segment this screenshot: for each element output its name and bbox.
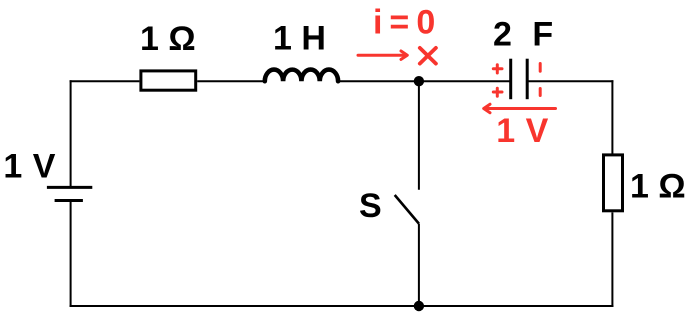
node junction top — [414, 76, 424, 86]
arrow capacitor voltage (red, leftward) — [484, 104, 556, 113]
svg-text:2 F: 2 F — [493, 16, 559, 54]
svg-text:1 H: 1 H — [273, 20, 326, 58]
wire switch branch lower — [418, 224, 420, 306]
wire left vertical upper — [70, 80, 72, 187]
svg-text:1 Ω: 1 Ω — [140, 20, 196, 58]
wire inductor to capacitor — [339, 80, 511, 82]
node junction bottom — [414, 301, 424, 311]
wire switch branch upper — [418, 81, 420, 190]
battery V1 — [47, 187, 92, 200]
polarity plus marks (red) — [493, 65, 502, 97]
wire right vertical lower — [611, 212, 613, 307]
wire left vertical lower — [70, 201, 72, 308]
polarity minus marks (red) — [539, 64, 542, 96]
wire bottom horizontal — [70, 305, 614, 307]
inductor L1 — [265, 70, 338, 82]
switch S blade — [395, 195, 419, 224]
resistor R2 — [604, 155, 623, 211]
svg-text:1 V: 1 V — [496, 112, 549, 150]
svg-text:i = 0: i = 0 — [373, 4, 434, 42]
svg-text:1 V: 1 V — [3, 147, 56, 185]
svg-text:S: S — [359, 187, 382, 225]
resistor R1 — [141, 71, 196, 90]
svg-text:1 Ω: 1 Ω — [630, 167, 686, 205]
wire right vertical upper — [611, 80, 613, 153]
wire resistor R1 to inductor — [197, 80, 264, 82]
capacitor C1 — [511, 59, 528, 99]
wire top-left horizontal — [70, 80, 140, 82]
arrow current direction (red, rightward) — [358, 51, 407, 59]
wire capacitor to right corner — [527, 80, 613, 82]
open-circuit X mark (red) — [420, 48, 436, 64]
